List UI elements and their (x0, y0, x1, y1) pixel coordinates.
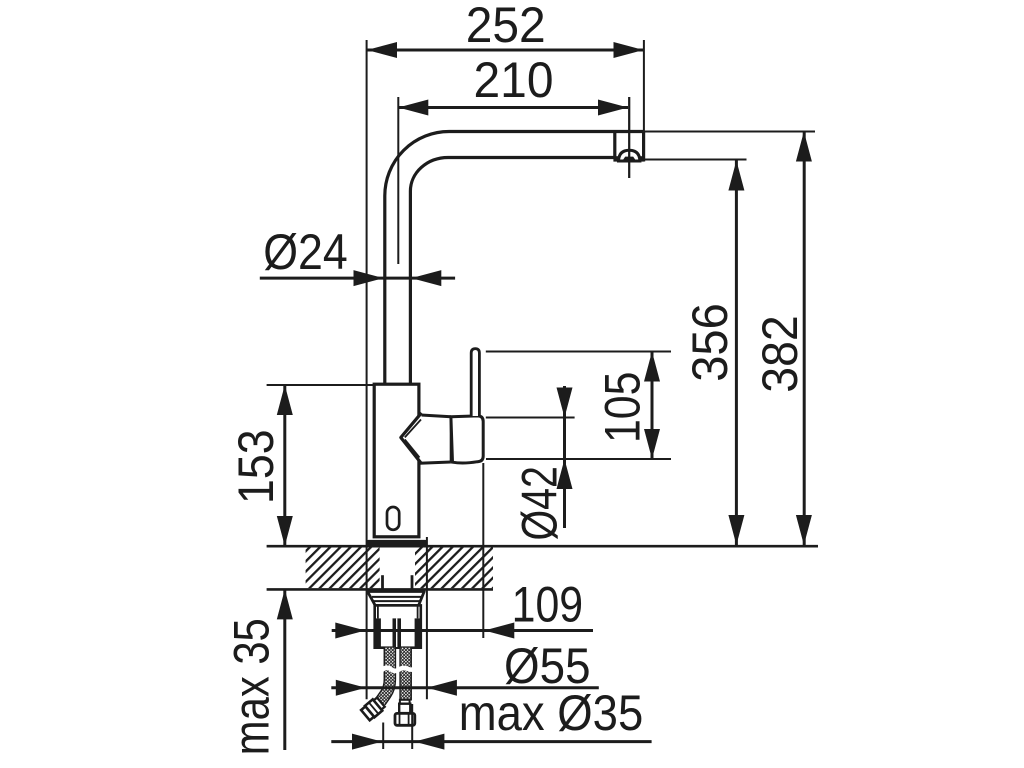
svg-text:Ø42: Ø42 (511, 466, 567, 541)
base escutcheon (366, 540, 428, 546)
countertop hatch left (306, 548, 380, 589)
handle connector bottom edge (420, 462, 451, 463)
svg-text:109: 109 (512, 576, 584, 632)
mounting flange (368, 592, 425, 606)
shank tube through countertop (383, 575, 413, 591)
faucet body (374, 384, 419, 537)
dimension 356 (645, 160, 747, 546)
dimension 382 (644, 132, 815, 546)
spout inner contour (410, 158, 614, 385)
svg-text:153: 153 (228, 429, 284, 504)
svg-text:105: 105 (595, 372, 651, 444)
countertop hatch right (415, 548, 493, 589)
dimension max Ø35 (331, 685, 651, 750)
outlet centerline (628, 97, 630, 178)
countertop top surface line (267, 545, 818, 548)
handle lever rod (471, 349, 479, 416)
spout outer contour (385, 132, 644, 385)
hose break mark (381, 668, 414, 671)
outlet left edge (613, 132, 616, 160)
dimension 153 (228, 385, 374, 546)
left supply hose (380, 648, 389, 702)
handle grip (451, 416, 483, 463)
outlet bottom face band (613, 156, 644, 161)
dimension 109 (332, 463, 593, 639)
svg-text:210: 210 (474, 52, 554, 108)
dimension 252 (367, 0, 644, 699)
svg-text:252: 252 (466, 0, 546, 53)
dimension 210 (398, 52, 629, 264)
mounting nut body (375, 605, 421, 647)
svg-text:max 35: max 35 (223, 618, 279, 755)
handle connector top edge (419, 415, 451, 417)
dimension Ø42 (486, 386, 575, 541)
outlet right edge (642, 132, 645, 162)
dimension Ø24 (260, 224, 455, 286)
left hose fitting (361, 697, 386, 721)
right supply hose (399, 648, 412, 701)
countertop bottom surface line (267, 588, 493, 591)
handle joint wedge (401, 413, 422, 464)
svg-text:Ø24: Ø24 (263, 224, 348, 280)
svg-text:382: 382 (752, 315, 808, 393)
svg-text:356: 356 (682, 303, 738, 382)
aerator dome (619, 150, 640, 161)
mounting studs (375, 618, 421, 647)
dimension 105 (486, 352, 671, 460)
dimension Ø55 (331, 537, 599, 699)
body logo 0 (387, 507, 399, 530)
dimension max 35 (223, 589, 292, 755)
svg-text:max Ø35: max Ø35 (459, 685, 644, 741)
right hose fitting (395, 700, 415, 726)
